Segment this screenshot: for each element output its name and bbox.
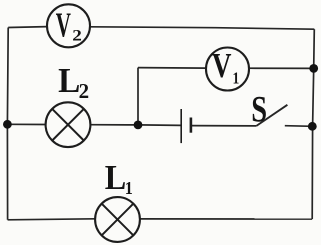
node B junction dot [134, 121, 143, 130]
label L1 [105, 159, 133, 198]
svg-text:1: 1 [125, 178, 133, 198]
node D junction dot [308, 122, 317, 131]
wire: lamp L2 to node B [90, 124, 138, 126]
wire: V1 branch right segment to node C [249, 67, 314, 69]
lamp L2 [46, 102, 91, 147]
voltmeter V2 [47, 4, 90, 47]
node A junction dot [3, 120, 12, 129]
svg-text:1: 1 [233, 69, 240, 88]
lamp L1 [95, 197, 140, 242]
wire: node B to battery positive plate [138, 124, 181, 127]
wire: top right segment (V2 to top-right corner) [90, 27, 314, 29]
wire: top left segment (left corner to V2) [8, 26, 47, 29]
wire: node B vertical riser to V1 branch [137, 68, 139, 125]
wire: battery negative plate to switch pivot [192, 125, 257, 127]
wire: right vertical [312, 29, 314, 219]
svg-text:L: L [58, 62, 80, 100]
wire: switch contact to node D [285, 125, 313, 128]
wire: middle branch, node A to lamp L2 [7, 123, 45, 125]
wire: bottom left segment (left corner to L1) [8, 219, 96, 220]
svg-text:S: S [251, 90, 267, 130]
battery cell: short negative plate [190, 118, 193, 133]
node C junction dot [309, 64, 318, 73]
switch S blade (open) [256, 105, 287, 126]
svg-text:V: V [56, 6, 71, 45]
svg-text:2: 2 [72, 26, 82, 44]
svg-text:L: L [105, 159, 126, 198]
label L2 [58, 62, 89, 103]
voltmeter V1 [206, 46, 249, 91]
wire: left vertical [6, 28, 9, 220]
svg-text:V: V [212, 46, 232, 85]
wire: V1 branch left segment [138, 67, 206, 70]
wire: bottom right segment (L1 to bottom-right corner) [140, 218, 312, 220]
battery cell: long positive plate [180, 109, 182, 143]
svg-text:2: 2 [79, 79, 90, 103]
